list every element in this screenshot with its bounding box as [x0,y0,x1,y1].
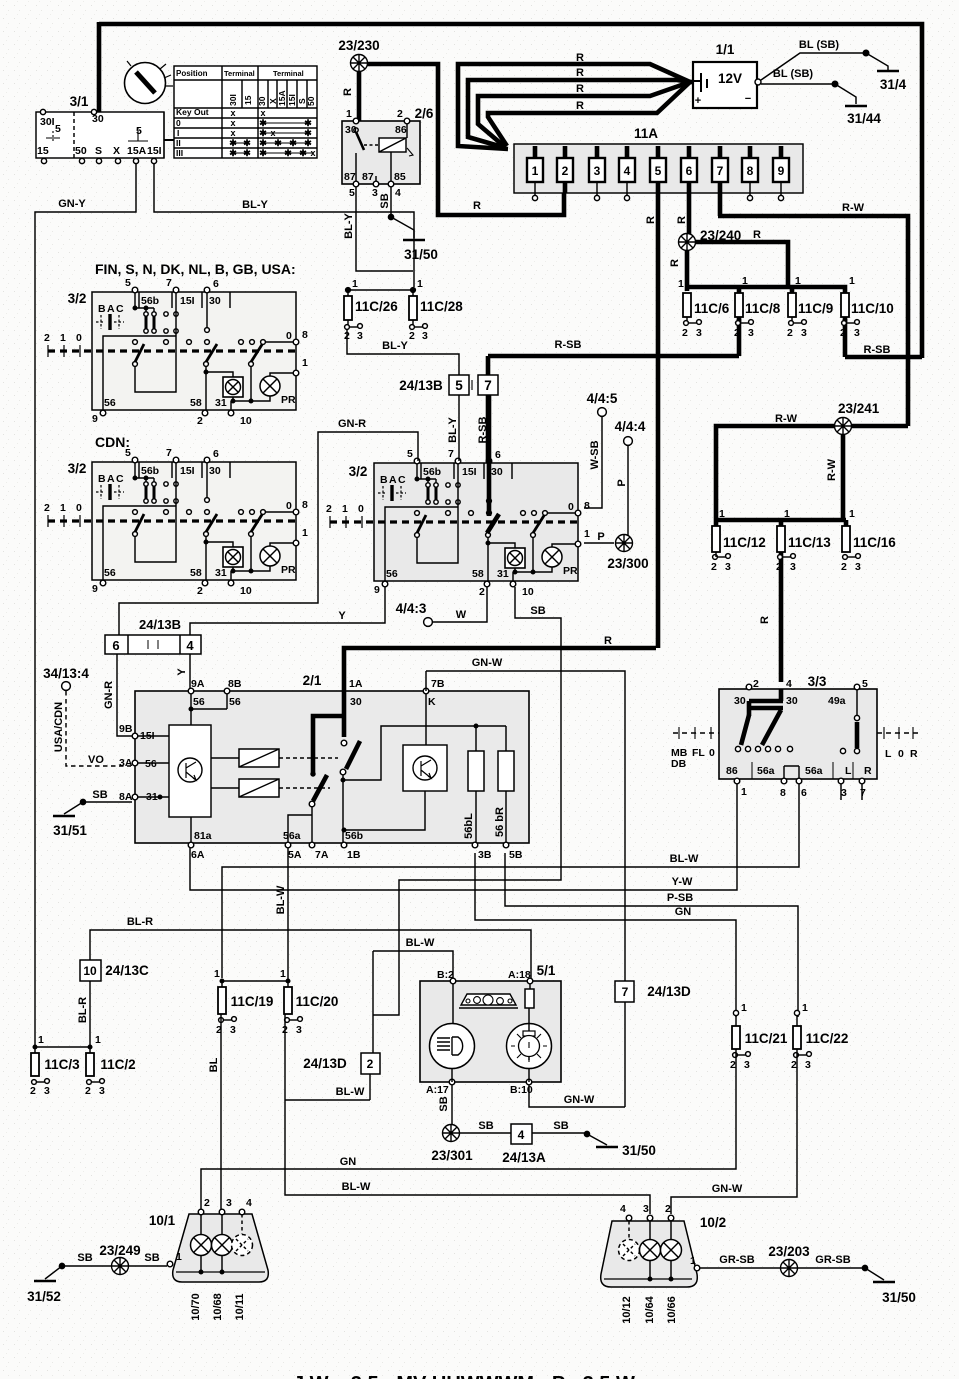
svg-text:K: K [428,696,436,708]
svg-text:3: 3 [801,327,807,339]
svg-text:0: 0 [286,330,292,342]
svg-text:1B: 1B [347,849,361,861]
svg-text:R: R [604,635,612,647]
svg-text:2: 2 [344,330,350,342]
svg-text:1: 1 [280,968,286,980]
svg-text:R: R [669,259,681,267]
svg-text:30: 30 [734,695,746,707]
svg-text:4: 4 [246,1197,252,1209]
svg-text:BL-R: BL-R [127,916,153,928]
svg-text:0: 0 [709,747,715,759]
svg-text:R-SB: R-SB [864,344,891,356]
svg-text:6: 6 [686,164,693,178]
svg-text:SB: SB [77,1252,92,1264]
svg-text:GR-SB: GR-SB [719,1254,755,1266]
svg-text:R: R [342,88,354,96]
svg-text:J.W. · 3.5 · MV UUWWWM · P · 3: J.W. · 3.5 · MV UUWWWM · P · 3 5 W [293,1373,635,1379]
svg-text:10/70: 10/70 [190,1293,202,1321]
svg-text:8: 8 [747,164,754,178]
svg-text:R: R [576,67,584,79]
svg-text:R: R [576,83,584,95]
svg-text:15I: 15I [147,145,162,157]
svg-text:0: 0 [76,332,82,344]
svg-text:86: 86 [726,765,738,777]
svg-text:1: 1 [346,108,352,120]
svg-text:1: 1 [678,278,684,290]
svg-text:15: 15 [243,95,253,105]
svg-text:12V: 12V [718,71,742,86]
svg-text:1: 1 [795,275,801,287]
svg-text:3: 3 [357,330,363,342]
svg-text:30: 30 [786,695,798,707]
svg-text:3: 3 [790,561,796,573]
svg-text:x: x [260,108,265,118]
svg-text:III: III [176,148,183,158]
svg-text:SB: SB [379,193,391,208]
svg-text:1: 1 [60,332,66,344]
svg-text:3: 3 [422,330,428,342]
svg-text:1A: 1A [349,678,363,690]
svg-text:11C/2: 11C/2 [100,1057,135,1072]
svg-text:1: 1 [849,275,855,287]
svg-text:II: II [176,138,181,148]
svg-text:56: 56 [229,696,241,708]
svg-text:x: x [230,108,235,118]
svg-text:11C/12: 11C/12 [723,535,766,550]
svg-text:15I: 15I [287,94,297,106]
svg-text:3: 3 [594,164,601,178]
svg-text:2: 2 [753,678,759,690]
svg-text:2: 2 [282,1024,288,1036]
svg-text:4: 4 [186,638,194,653]
svg-text:3: 3 [643,1203,649,1215]
svg-text:L: L [885,748,892,760]
svg-text:11C/22: 11C/22 [806,1031,849,1046]
svg-text:9B: 9B [119,723,133,735]
svg-text:86: 86 [395,124,407,136]
svg-text:11C/26: 11C/26 [355,299,398,314]
svg-text:31: 31 [146,791,158,803]
svg-text:1: 1 [95,1034,101,1046]
svg-text:5/1: 5/1 [537,963,556,978]
svg-text:11A: 11A [634,126,658,141]
svg-text:10/66: 10/66 [666,1296,678,1324]
svg-text:2/1: 2/1 [303,673,322,688]
svg-text:B:10: B:10 [510,1084,533,1096]
svg-text:10/68: 10/68 [212,1293,224,1321]
svg-text:3: 3 [230,1024,236,1036]
svg-text:R-W: R-W [775,413,798,425]
svg-text:BL-W: BL-W [670,853,699,865]
svg-text:+: + [695,95,701,107]
svg-text:3: 3 [44,1085,50,1097]
svg-text:3: 3 [725,561,731,573]
svg-text:R-W: R-W [842,202,865,214]
svg-text:0: 0 [898,748,904,760]
svg-text:R: R [753,229,761,241]
svg-text:FIN, S, N, DK, NL, B, GB, USA:: FIN, S, N, DK, NL, B, GB, USA: [95,261,296,277]
svg-text:3/2: 3/2 [68,461,87,476]
svg-text:3: 3 [696,327,702,339]
svg-text:0: 0 [176,118,181,128]
svg-text:11C/16: 11C/16 [853,535,896,550]
svg-text:2: 2 [791,1059,797,1071]
svg-text:3: 3 [226,1197,232,1209]
svg-text:GN: GN [340,1156,357,1168]
svg-text:8: 8 [780,787,786,799]
svg-text:1: 1 [849,508,855,520]
svg-text:9A: 9A [191,678,205,690]
svg-text:1: 1 [719,508,725,520]
svg-text:BL-W: BL-W [336,1086,365,1098]
svg-text:3B: 3B [478,849,492,861]
svg-text:1: 1 [176,1251,182,1263]
svg-text:9: 9 [92,413,98,425]
svg-text:2: 2 [397,108,403,120]
svg-text:5: 5 [55,123,61,135]
svg-text:GN-W: GN-W [712,1183,743,1195]
svg-text:BL-Y: BL-Y [242,199,268,211]
svg-text:31/50: 31/50 [622,1143,656,1158]
svg-text:3: 3 [748,327,754,339]
svg-text:1: 1 [214,968,220,980]
svg-text:24/13A: 24/13A [502,1150,546,1165]
svg-text:1: 1 [532,164,539,178]
svg-text:R: R [910,748,918,760]
svg-text:56b: 56b [141,295,159,307]
svg-text:23/240: 23/240 [700,228,741,243]
svg-text:15A: 15A [127,145,147,157]
svg-text:BL (SB): BL (SB) [773,68,813,80]
svg-text:GN: GN [675,906,692,918]
svg-text:SB: SB [438,1096,450,1111]
svg-text:1/1: 1/1 [716,42,735,57]
svg-text:2: 2 [204,1197,210,1209]
svg-text:6A: 6A [191,849,205,861]
svg-text:3: 3 [805,1059,811,1071]
svg-text:2: 2 [409,330,415,342]
svg-text:7B: 7B [431,678,445,690]
svg-text:2: 2 [787,327,793,339]
svg-text:56a: 56a [283,830,301,842]
svg-text:56a: 56a [757,765,775,777]
svg-text:1: 1 [302,357,308,369]
svg-text:7A: 7A [315,849,329,861]
svg-text:23/203: 23/203 [768,1244,810,1259]
svg-text:30: 30 [257,96,267,106]
svg-text:4: 4 [395,187,401,199]
svg-text:1: 1 [352,278,358,290]
svg-text:6: 6 [213,278,219,290]
svg-text:GN-Y: GN-Y [58,198,86,210]
svg-text:11C/19: 11C/19 [231,994,274,1009]
svg-text:7: 7 [860,787,866,799]
svg-text:R-W: R-W [826,458,838,481]
svg-text:2: 2 [734,327,740,339]
svg-text:Position: Position [176,69,208,78]
svg-text:85: 85 [394,171,406,183]
svg-text:5: 5 [862,678,868,690]
svg-text:11C/21: 11C/21 [745,1031,788,1046]
svg-text:87: 87 [362,171,374,183]
svg-text:GN-R: GN-R [338,418,366,430]
svg-text:3A: 3A [119,757,133,769]
svg-text:31/44: 31/44 [847,111,881,126]
svg-text:2: 2 [711,561,717,573]
svg-text:R: R [473,200,481,212]
svg-text:2: 2 [840,327,846,339]
svg-text:2: 2 [85,1085,91,1097]
svg-text:3: 3 [744,1059,750,1071]
svg-text:BL-Y: BL-Y [382,340,408,352]
svg-text:USA/CDN: USA/CDN [53,702,65,752]
svg-text:A: A [107,303,115,315]
svg-text:5A: 5A [288,849,302,861]
svg-text:FL: FL [692,747,705,759]
svg-text:30I: 30I [228,94,238,106]
svg-text:10/64: 10/64 [644,1295,656,1323]
svg-text:5: 5 [455,378,463,393]
svg-text:R: R [864,765,872,777]
svg-text:7: 7 [717,164,724,178]
svg-text:4: 4 [518,1128,525,1142]
svg-text:2: 2 [30,1085,36,1097]
svg-text:DB: DB [671,758,687,770]
svg-text:2: 2 [665,1203,671,1215]
svg-text:5: 5 [125,277,131,289]
svg-text:BL (SB): BL (SB) [799,39,839,51]
svg-text:2: 2 [367,1057,374,1071]
svg-text:58: 58 [190,397,202,409]
svg-text:2: 2 [197,415,203,427]
svg-text:24/13B: 24/13B [139,617,181,632]
svg-text:R: R [645,216,657,224]
svg-text:23/249: 23/249 [99,1243,140,1258]
svg-text:56 bR: 56 bR [494,807,506,837]
svg-text:C: C [116,303,124,315]
svg-text:31/50: 31/50 [882,1290,916,1305]
svg-text:23/230: 23/230 [338,38,379,53]
svg-text:11C/9: 11C/9 [798,301,833,316]
svg-text:R: R [576,52,584,64]
svg-text:2: 2 [730,1059,736,1071]
svg-text:15I: 15I [140,730,155,742]
svg-text:S: S [95,145,102,157]
svg-text:VO: VO [88,754,104,766]
svg-text:6: 6 [112,638,119,653]
svg-text:1: 1 [741,1002,747,1014]
svg-text:3/2: 3/2 [68,291,87,306]
svg-text:30: 30 [345,124,357,136]
svg-text:R-SB: R-SB [555,339,582,351]
svg-text:3: 3 [296,1024,302,1036]
svg-text:11C/10: 11C/10 [851,301,894,316]
svg-text:P: P [597,531,604,543]
svg-text:30: 30 [350,696,362,708]
svg-text:24/13C: 24/13C [105,963,149,978]
svg-text:15A: 15A [277,90,287,106]
svg-text:3: 3 [855,561,861,573]
svg-text:A:18: A:18 [508,969,531,981]
svg-text:1: 1 [690,1255,696,1267]
svg-text:1: 1 [417,278,423,290]
svg-text:7: 7 [484,378,492,393]
svg-text:56b: 56b [345,830,363,842]
svg-text:10/2: 10/2 [700,1215,726,1230]
svg-text:11C/13: 11C/13 [788,535,831,550]
svg-text:23/241: 23/241 [838,401,880,416]
svg-text:3: 3 [99,1085,105,1097]
svg-text:31/4: 31/4 [880,77,907,92]
svg-text:x: x [230,118,235,128]
svg-text:SB: SB [553,1120,568,1132]
svg-text:11C/20: 11C/20 [296,994,339,1009]
svg-text:31/51: 31/51 [53,823,87,838]
svg-text:−: − [745,93,751,105]
svg-text:1: 1 [38,1034,44,1046]
svg-text:31/52: 31/52 [27,1289,61,1304]
svg-text:7: 7 [622,985,629,999]
svg-text:BL-W: BL-W [406,937,435,949]
svg-text:BL-W: BL-W [342,1181,371,1193]
svg-text:Y: Y [338,610,346,622]
svg-text:2: 2 [776,561,782,573]
svg-text:L: L [845,765,852,777]
svg-text:3: 3 [841,787,847,799]
svg-text:6: 6 [801,787,807,799]
svg-text:10/11: 10/11 [234,1294,246,1321]
svg-text:CDN:: CDN: [95,434,130,450]
svg-text:GN-R: GN-R [103,681,115,709]
svg-text:Key Out: Key Out [176,107,209,117]
svg-text:BL-W: BL-W [275,885,287,914]
svg-text:31/50: 31/50 [404,247,438,262]
svg-text:10/1: 10/1 [149,1213,176,1228]
svg-text:Y: Y [176,668,188,676]
svg-text:5B: 5B [509,849,523,861]
svg-text:3: 3 [854,327,860,339]
svg-text:B: B [98,303,106,315]
svg-text:10/12: 10/12 [621,1296,633,1324]
svg-text:I: I [177,128,179,138]
svg-text:B:2: B:2 [437,969,454,981]
svg-text:87: 87 [344,171,356,183]
svg-text:1: 1 [742,275,748,287]
svg-text:30I: 30I [40,116,55,128]
svg-text:2: 2 [216,1024,222,1036]
svg-text:2: 2 [44,332,50,344]
svg-text:X: X [113,145,120,157]
svg-text:8A: 8A [119,791,133,803]
svg-text:2: 2 [841,561,847,573]
svg-text:BL: BL [208,1057,220,1072]
svg-text:81a: 81a [194,830,212,842]
svg-text:1: 1 [784,508,790,520]
svg-text:8B: 8B [228,678,242,690]
svg-text:34/13:4: 34/13:4 [43,666,89,681]
svg-text:BL-Y: BL-Y [343,213,355,239]
svg-text:30: 30 [92,113,104,125]
svg-text:SB: SB [92,789,107,801]
svg-text:GR-SB: GR-SB [815,1254,851,1266]
svg-text:24/13D: 24/13D [647,984,691,999]
svg-text:24/13D: 24/13D [303,1056,347,1071]
svg-text:11C/6: 11C/6 [694,301,730,316]
svg-text:10: 10 [83,964,97,978]
svg-text:SB: SB [144,1252,159,1264]
svg-text:GN-W: GN-W [472,657,503,669]
svg-text:R-SB: R-SB [477,417,489,444]
svg-text:P-SB: P-SB [667,892,693,904]
svg-text:56: 56 [104,397,116,409]
svg-text:A:17: A:17 [426,1084,449,1096]
svg-text:9: 9 [778,164,785,178]
svg-text:R: R [676,216,688,224]
svg-text:3/1: 3/1 [70,94,89,109]
svg-text:56: 56 [145,758,157,770]
svg-text:31: 31 [215,397,227,409]
svg-text:Terminal: Terminal [273,69,304,78]
svg-text:2/6: 2/6 [415,106,434,121]
svg-text:23/300: 23/300 [607,556,648,571]
svg-text:15I: 15I [180,295,195,307]
svg-text:5: 5 [349,187,355,199]
svg-text:5: 5 [136,125,142,137]
svg-text:3/2: 3/2 [349,464,368,479]
svg-text:4: 4 [786,678,792,690]
svg-text:W-SB: W-SB [589,440,601,469]
svg-text:SB: SB [478,1120,493,1132]
svg-text:8: 8 [302,329,308,341]
svg-text:4/4:4: 4/4:4 [615,419,646,434]
svg-text:x: x [230,128,235,138]
svg-text:PR: PR [281,394,296,406]
svg-text:4: 4 [624,164,631,178]
svg-text:BL-Y: BL-Y [447,417,459,443]
svg-text:56a: 56a [805,765,823,777]
svg-text:P: P [616,479,628,486]
svg-text:R: R [576,100,584,112]
svg-text:3/3: 3/3 [808,674,827,689]
svg-text:W: W [456,609,467,621]
svg-text:49a: 49a [828,695,846,707]
svg-text:30: 30 [209,295,221,307]
svg-text:11C/8: 11C/8 [745,301,781,316]
svg-text:Y-W: Y-W [672,876,693,888]
svg-text:1: 1 [741,786,747,798]
svg-text:3: 3 [372,187,378,199]
svg-text:15: 15 [37,145,49,157]
svg-text:56bL: 56bL [463,813,475,839]
svg-text:2: 2 [562,164,569,178]
svg-text:BL-R: BL-R [77,997,89,1023]
svg-text:50: 50 [306,96,316,106]
svg-text:50: 50 [75,145,87,157]
svg-text:4/4:5: 4/4:5 [587,391,618,406]
svg-text:4: 4 [620,1203,626,1215]
svg-text:1: 1 [802,1002,808,1014]
svg-text:5: 5 [655,164,662,178]
svg-text:R: R [759,616,771,624]
svg-text:10: 10 [240,415,252,427]
svg-text:4/4:3: 4/4:3 [396,601,427,616]
svg-text:SB: SB [530,605,545,617]
svg-text:56: 56 [193,696,205,708]
svg-text:7: 7 [166,277,172,289]
svg-text:23/301: 23/301 [431,1148,473,1163]
svg-text:GN-W: GN-W [564,1094,595,1106]
svg-text:2: 2 [682,327,688,339]
